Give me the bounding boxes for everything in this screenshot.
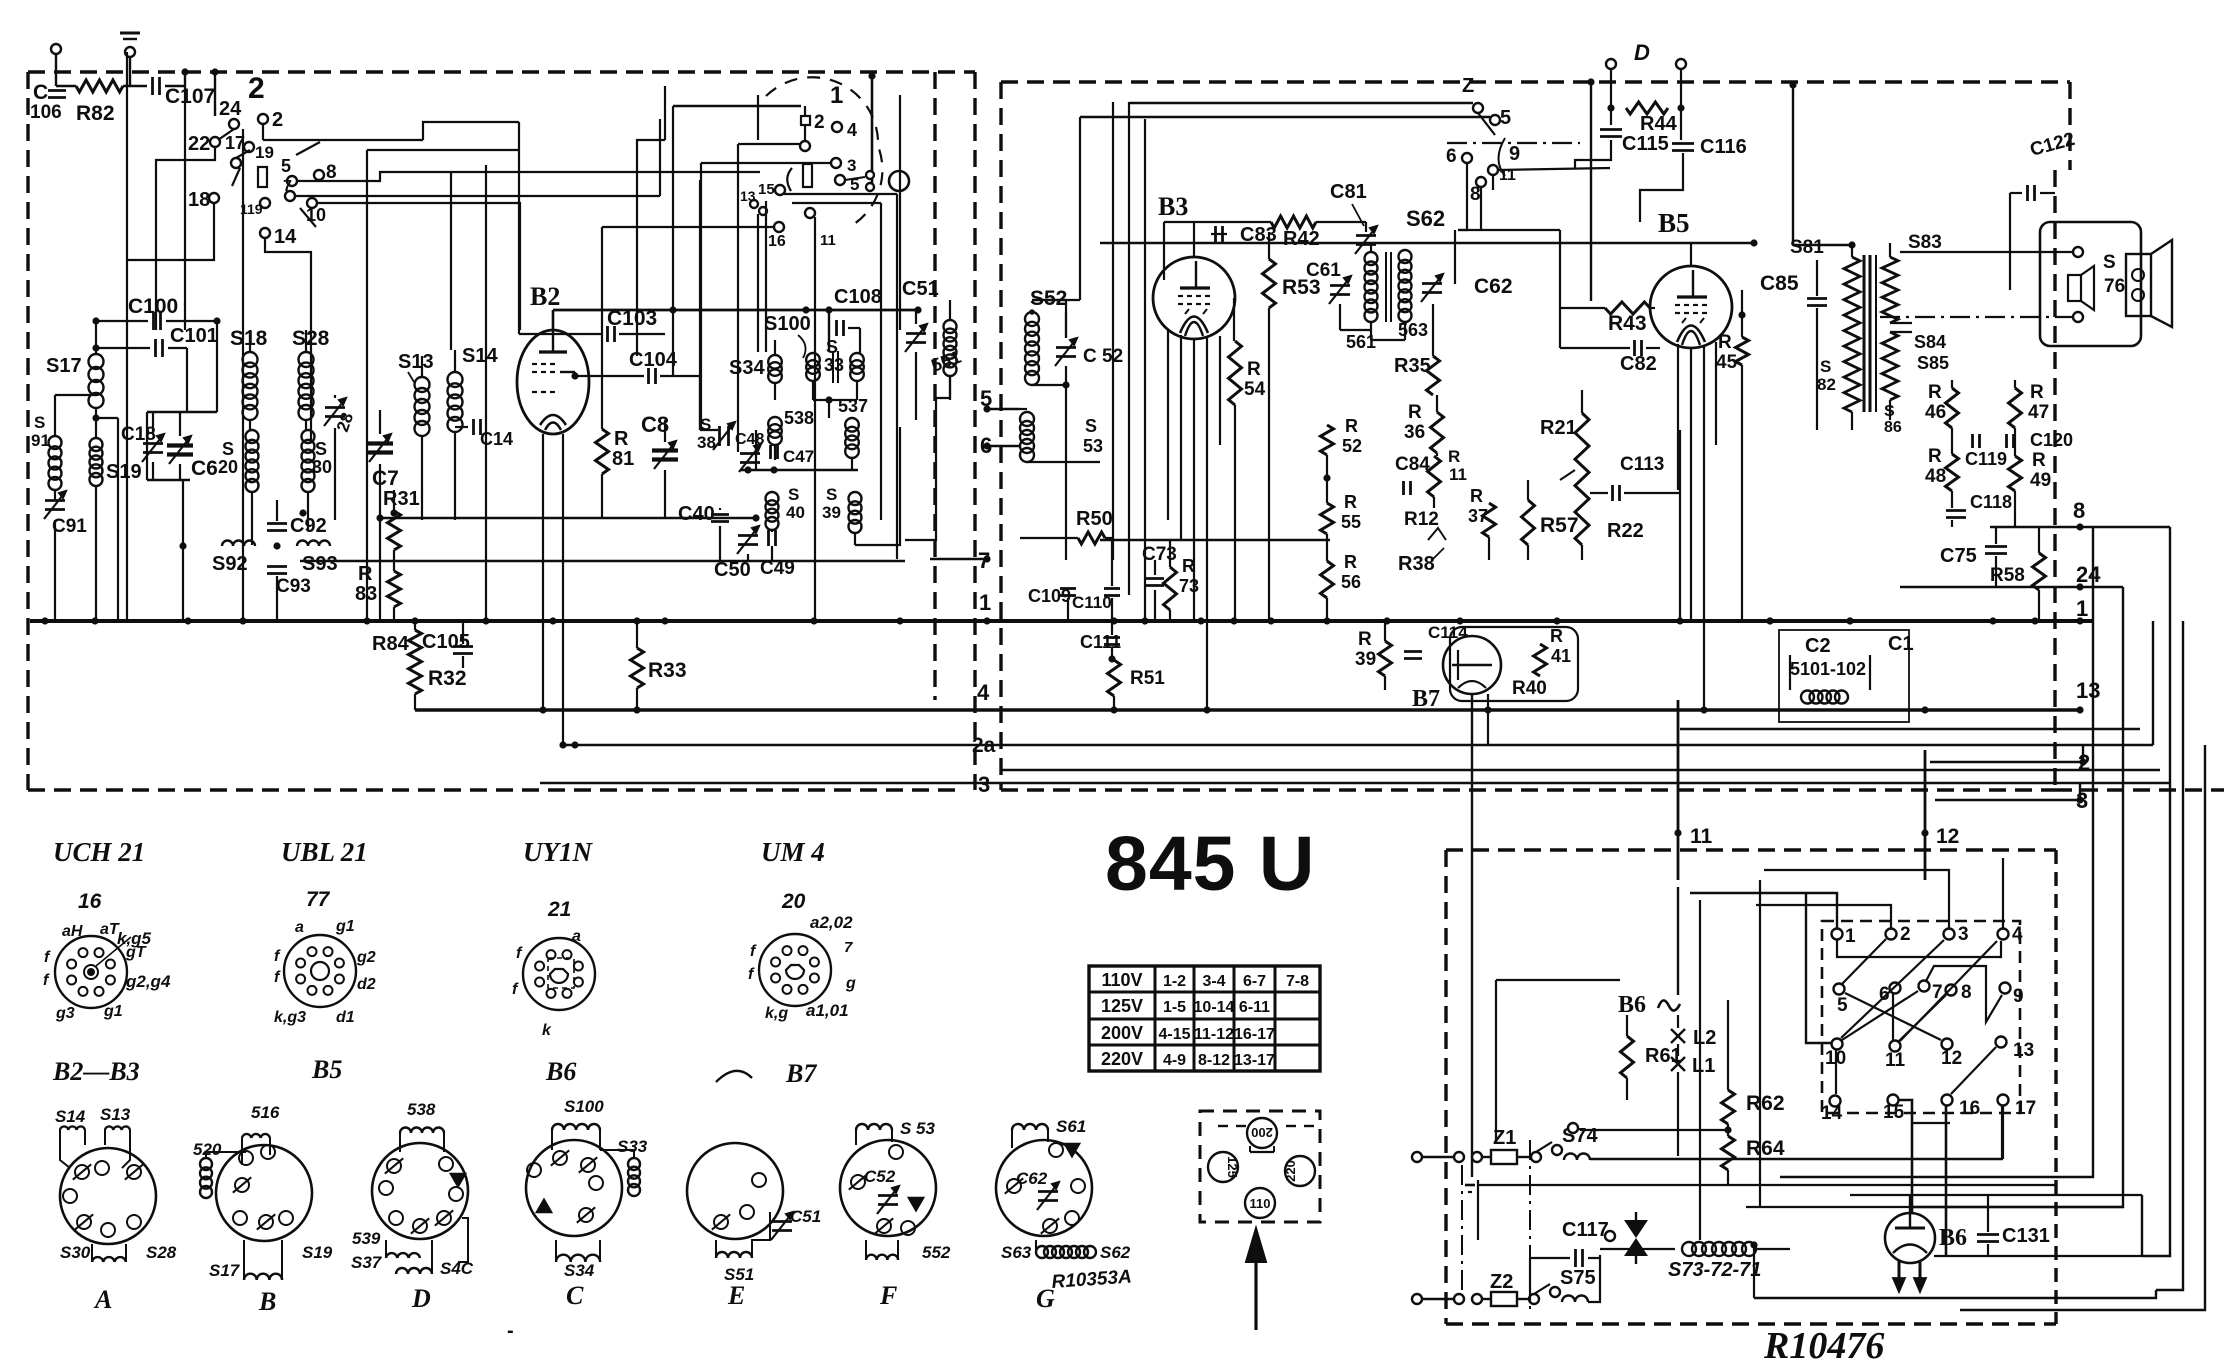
svg-text:S: S xyxy=(222,439,234,459)
svg-text:S: S xyxy=(2103,252,2116,273)
svg-text:R35: R35 xyxy=(1394,355,1431,377)
svg-text:8: 8 xyxy=(1961,982,1972,1003)
svg-text:9: 9 xyxy=(1509,143,1520,165)
svg-text:UY1N: UY1N xyxy=(523,837,593,867)
svg-text:18: 18 xyxy=(188,189,210,211)
svg-text:d1: d1 xyxy=(336,1009,355,1026)
svg-text:82: 82 xyxy=(1817,375,1836,394)
svg-text:k: k xyxy=(542,1022,552,1039)
svg-text:91: 91 xyxy=(31,431,50,450)
svg-text:10: 10 xyxy=(306,205,326,225)
svg-text:B6: B6 xyxy=(1939,1225,1967,1251)
svg-text:77: 77 xyxy=(306,888,331,911)
svg-text:S100: S100 xyxy=(764,313,811,335)
svg-text:S61: S61 xyxy=(1056,1117,1086,1136)
svg-text:g3: g3 xyxy=(55,1005,75,1022)
svg-text:E: E xyxy=(727,1281,745,1310)
svg-text:15: 15 xyxy=(1883,1102,1905,1123)
svg-text:C93: C93 xyxy=(276,576,311,597)
svg-text:R42: R42 xyxy=(1283,228,1320,250)
svg-text:S: S xyxy=(315,439,327,459)
svg-text:B6: B6 xyxy=(1618,992,1646,1018)
svg-text:R: R xyxy=(1550,626,1563,646)
svg-text:2: 2 xyxy=(814,112,825,133)
svg-text:C107: C107 xyxy=(165,85,215,108)
svg-text:7: 7 xyxy=(283,178,292,195)
svg-text:2: 2 xyxy=(272,109,283,131)
svg-text:S13: S13 xyxy=(398,351,434,373)
svg-text:R12: R12 xyxy=(1404,509,1439,530)
svg-text:a2,02: a2,02 xyxy=(810,913,853,932)
svg-text:S92: S92 xyxy=(212,553,248,575)
svg-text:516: 516 xyxy=(251,1103,280,1122)
svg-text:B6: B6 xyxy=(545,1057,576,1086)
svg-text:R: R xyxy=(358,563,373,585)
svg-text:5101-102: 5101-102 xyxy=(1790,659,1866,679)
svg-text:gT: gT xyxy=(125,944,147,961)
svg-text:16-17: 16-17 xyxy=(1234,1026,1275,1043)
svg-text:76: 76 xyxy=(2104,276,2125,297)
svg-text:C75: C75 xyxy=(1940,545,1977,567)
svg-text:538: 538 xyxy=(407,1100,436,1119)
svg-text:R51: R51 xyxy=(1130,668,1165,689)
svg-text:56: 56 xyxy=(1341,572,1361,592)
svg-text:S85: S85 xyxy=(1917,353,1949,373)
svg-text:S: S xyxy=(34,413,45,432)
svg-text:C91: C91 xyxy=(52,516,87,537)
svg-text:B2: B2 xyxy=(530,282,560,311)
svg-text:d2: d2 xyxy=(357,976,376,993)
svg-text:C51: C51 xyxy=(902,278,939,300)
svg-text:R43: R43 xyxy=(1608,312,1647,335)
svg-text:16: 16 xyxy=(1959,1098,1980,1119)
svg-text:R21: R21 xyxy=(1540,417,1577,439)
svg-text:S75: S75 xyxy=(1560,1267,1596,1289)
svg-text:45: 45 xyxy=(1716,352,1738,373)
svg-text:14: 14 xyxy=(1821,1103,1843,1124)
svg-text:C50: C50 xyxy=(714,559,751,581)
svg-text:1: 1 xyxy=(2076,596,2088,621)
svg-text:R84: R84 xyxy=(372,633,410,655)
svg-text:S34: S34 xyxy=(564,1261,595,1280)
svg-text:S: S xyxy=(1820,357,1831,376)
svg-text:C 52: C 52 xyxy=(1083,346,1123,367)
svg-text:1-5: 1-5 xyxy=(1163,999,1186,1016)
svg-text:33: 33 xyxy=(824,355,844,375)
svg-text:539: 539 xyxy=(352,1229,381,1248)
svg-text:B7: B7 xyxy=(785,1059,817,1088)
svg-text:S17: S17 xyxy=(46,355,82,377)
svg-text:12: 12 xyxy=(1936,825,1959,848)
svg-text:7: 7 xyxy=(844,939,853,956)
svg-text:4-15: 4-15 xyxy=(1158,1026,1190,1043)
svg-text:5: 5 xyxy=(1837,995,1848,1016)
svg-text:4-9: 4-9 xyxy=(1163,1052,1186,1069)
svg-text:S: S xyxy=(1085,416,1097,436)
svg-text:C81: C81 xyxy=(1330,181,1367,203)
svg-text:13: 13 xyxy=(2076,678,2100,703)
svg-text:2: 2 xyxy=(248,72,265,105)
svg-text:21: 21 xyxy=(547,898,571,921)
svg-text:3: 3 xyxy=(978,772,990,797)
svg-text:R: R xyxy=(1928,382,1942,403)
svg-text:11: 11 xyxy=(1885,1050,1906,1071)
svg-text:C: C xyxy=(566,1281,584,1310)
svg-text:86: 86 xyxy=(1884,419,1902,436)
svg-text:73: 73 xyxy=(1179,576,1199,596)
svg-text:200V: 200V xyxy=(1101,1023,1143,1043)
svg-text:S 53: S 53 xyxy=(900,1119,936,1138)
svg-text:36: 36 xyxy=(1404,422,1425,443)
svg-text:S17: S17 xyxy=(209,1261,241,1280)
svg-text:C85: C85 xyxy=(1760,272,1799,295)
svg-text:49: 49 xyxy=(2030,470,2051,491)
svg-text:R: R xyxy=(1344,552,1357,572)
svg-text:C52: C52 xyxy=(864,1167,896,1186)
svg-text:55: 55 xyxy=(1341,512,1361,532)
svg-text:k,g: k,g xyxy=(765,1005,788,1022)
svg-text:8: 8 xyxy=(326,162,337,183)
svg-text:C73: C73 xyxy=(1142,544,1177,565)
svg-text:D: D xyxy=(1634,40,1650,65)
svg-text:C117: C117 xyxy=(1562,1219,1609,1241)
svg-text:110V: 110V xyxy=(1101,970,1142,990)
svg-text:a: a xyxy=(295,919,304,936)
svg-text:C114: C114 xyxy=(1428,623,1468,642)
svg-text:16: 16 xyxy=(78,890,102,913)
svg-text:16: 16 xyxy=(768,233,786,250)
svg-text:106: 106 xyxy=(30,102,62,123)
svg-text:12: 12 xyxy=(1941,1048,1962,1069)
svg-text:-: - xyxy=(507,1320,514,1342)
svg-text:14: 14 xyxy=(274,226,297,248)
svg-text:S28: S28 xyxy=(292,327,330,350)
svg-text:L1: L1 xyxy=(1692,1055,1715,1077)
svg-text:g1: g1 xyxy=(335,918,355,935)
svg-text:2a: 2a xyxy=(972,734,996,757)
svg-text:C120: C120 xyxy=(2030,430,2073,450)
svg-text:1: 1 xyxy=(1845,926,1856,947)
svg-text:24: 24 xyxy=(219,98,242,120)
svg-text:R: R xyxy=(1247,359,1261,380)
svg-text:C82: C82 xyxy=(1620,353,1657,375)
svg-text:g2: g2 xyxy=(356,949,376,966)
svg-text:125: 125 xyxy=(1225,1156,1240,1178)
svg-text:C84: C84 xyxy=(1395,454,1430,475)
svg-text:R: R xyxy=(1928,446,1942,467)
svg-text:8: 8 xyxy=(1470,184,1481,205)
svg-text:S33: S33 xyxy=(617,1137,648,1156)
svg-text:8-12: 8-12 xyxy=(1198,1052,1230,1069)
svg-text:9: 9 xyxy=(2013,986,2024,1007)
svg-text:C2: C2 xyxy=(1805,635,1831,657)
svg-text:2: 2 xyxy=(1900,924,1911,945)
svg-text:S13: S13 xyxy=(100,1105,131,1124)
svg-text:41: 41 xyxy=(1551,646,1571,666)
svg-text:S63: S63 xyxy=(1001,1243,1032,1262)
svg-text:S100: S100 xyxy=(564,1097,604,1116)
svg-text:a: a xyxy=(572,928,581,945)
svg-text:R64: R64 xyxy=(1746,1137,1785,1160)
svg-text:R33: R33 xyxy=(648,659,687,682)
svg-text:S81: S81 xyxy=(1790,237,1824,258)
svg-text:538: 538 xyxy=(784,408,814,428)
svg-text:R22: R22 xyxy=(1607,520,1644,542)
svg-text:17: 17 xyxy=(2015,1098,2036,1119)
svg-text:C49: C49 xyxy=(760,558,795,579)
svg-text:R40: R40 xyxy=(1512,678,1547,699)
svg-text:13: 13 xyxy=(740,188,756,204)
svg-text:1-2: 1-2 xyxy=(1163,973,1186,990)
svg-text:S93: S93 xyxy=(302,553,338,575)
svg-text:52: 52 xyxy=(1342,436,1362,456)
svg-text:5: 5 xyxy=(1500,107,1511,129)
svg-text:S18: S18 xyxy=(230,327,268,350)
svg-text:R32: R32 xyxy=(428,667,467,690)
svg-text:B2—B3: B2—B3 xyxy=(52,1057,140,1086)
svg-text:S: S xyxy=(788,485,799,504)
svg-text:C40: C40 xyxy=(678,503,715,525)
svg-text:S62: S62 xyxy=(1406,206,1445,231)
svg-text:11: 11 xyxy=(1449,465,1467,484)
svg-text:S: S xyxy=(826,485,837,504)
svg-text:C116: C116 xyxy=(1700,136,1747,158)
svg-text:C118: C118 xyxy=(1970,492,2012,512)
svg-text:39: 39 xyxy=(1355,649,1376,670)
svg-text:g1: g1 xyxy=(103,1003,123,1020)
svg-text:S14: S14 xyxy=(462,345,498,367)
svg-text:a1,01: a1,01 xyxy=(806,1001,849,1020)
svg-text:R: R xyxy=(1344,492,1357,512)
svg-text:1: 1 xyxy=(979,590,991,615)
svg-text:4: 4 xyxy=(2012,924,2023,945)
svg-text:S73-72-71: S73-72-71 xyxy=(1668,1259,1761,1281)
svg-text:24: 24 xyxy=(2076,562,2101,587)
svg-text:C119: C119 xyxy=(1965,449,2007,469)
svg-text:S14: S14 xyxy=(55,1107,86,1126)
svg-text:4: 4 xyxy=(847,120,857,140)
svg-text:R: R xyxy=(1718,332,1732,353)
svg-text:S62: S62 xyxy=(1100,1243,1131,1262)
svg-text:13: 13 xyxy=(2013,1040,2034,1061)
svg-text:C101: C101 xyxy=(170,325,218,347)
svg-text:R: R xyxy=(1358,629,1372,650)
svg-text:C7: C7 xyxy=(372,467,399,490)
svg-text:S52: S52 xyxy=(1030,287,1067,310)
svg-text:S83: S83 xyxy=(1908,232,1942,253)
svg-text:C1: C1 xyxy=(1888,633,1914,655)
svg-text:1: 1 xyxy=(830,82,843,109)
svg-text:20: 20 xyxy=(218,457,238,477)
svg-text:Z2: Z2 xyxy=(1490,1271,1513,1293)
svg-text:40: 40 xyxy=(786,503,805,522)
svg-text:UBL 21: UBL 21 xyxy=(281,837,368,867)
svg-text:19: 19 xyxy=(255,143,274,162)
svg-text:6-7: 6-7 xyxy=(1243,973,1266,990)
svg-text:54: 54 xyxy=(1244,379,1266,400)
svg-text:B3: B3 xyxy=(1158,192,1188,221)
svg-text:48: 48 xyxy=(1925,466,1946,487)
svg-text:C108: C108 xyxy=(834,286,882,308)
svg-text:C6: C6 xyxy=(191,457,218,480)
svg-text:aH: aH xyxy=(62,923,83,940)
svg-text:S30: S30 xyxy=(60,1243,91,1262)
svg-text:5: 5 xyxy=(281,156,291,176)
svg-text:3: 3 xyxy=(1958,924,1969,945)
svg-text:552: 552 xyxy=(922,1243,951,1262)
svg-text:C47: C47 xyxy=(783,447,814,466)
svg-text:R38: R38 xyxy=(1398,553,1435,575)
svg-text:39: 39 xyxy=(822,503,841,522)
svg-text:15: 15 xyxy=(758,181,775,198)
svg-text:R: R xyxy=(1470,486,1483,506)
svg-text:11: 11 xyxy=(1690,825,1713,848)
svg-text:R: R xyxy=(2030,382,2044,403)
svg-text:R57: R57 xyxy=(1540,514,1579,537)
svg-text:B: B xyxy=(258,1287,276,1316)
svg-text:125V: 125V xyxy=(1101,996,1143,1016)
svg-text:46: 46 xyxy=(1925,402,1946,423)
svg-text:81: 81 xyxy=(612,448,634,470)
svg-text:13-17: 13-17 xyxy=(1234,1052,1275,1069)
svg-text:B5: B5 xyxy=(311,1055,342,1084)
svg-text:C131: C131 xyxy=(2002,1225,2050,1247)
svg-text:C113: C113 xyxy=(1620,454,1664,475)
svg-text:20: 20 xyxy=(781,890,806,913)
svg-text:UM 4: UM 4 xyxy=(761,837,825,867)
svg-text:B5: B5 xyxy=(1658,208,1690,238)
svg-text:C115: C115 xyxy=(1622,133,1669,155)
svg-text:R82: R82 xyxy=(76,102,115,125)
svg-text:C: C xyxy=(33,81,48,104)
svg-text:110: 110 xyxy=(1250,1196,1271,1211)
svg-text:11: 11 xyxy=(820,232,836,249)
svg-text:R53: R53 xyxy=(1282,276,1321,299)
svg-text:S84: S84 xyxy=(1914,332,1946,352)
svg-text:C111: C111 xyxy=(1080,632,1121,652)
svg-text:C92: C92 xyxy=(290,515,327,537)
svg-text:200: 200 xyxy=(1251,1125,1273,1140)
svg-text:C18: C18 xyxy=(121,424,156,445)
svg-text:8: 8 xyxy=(2073,498,2085,523)
svg-text:k,g3: k,g3 xyxy=(274,1009,306,1026)
svg-text:11-12: 11-12 xyxy=(1194,1026,1234,1043)
svg-text:A: A xyxy=(93,1285,112,1314)
svg-text:R: R xyxy=(1408,402,1422,423)
svg-text:845 U: 845 U xyxy=(1105,821,1315,907)
svg-text:R: R xyxy=(1448,447,1460,466)
svg-text:S19: S19 xyxy=(302,1243,333,1262)
svg-text:g2,g4: g2,g4 xyxy=(125,972,171,991)
svg-text:UCH 21: UCH 21 xyxy=(53,837,145,867)
svg-text:520: 520 xyxy=(193,1140,222,1159)
svg-text:R: R xyxy=(2032,450,2046,471)
svg-text:R31: R31 xyxy=(383,488,420,510)
svg-text:6-11: 6-11 xyxy=(1239,999,1270,1016)
svg-text:R: R xyxy=(1345,416,1358,436)
svg-text:3-4: 3-4 xyxy=(1202,973,1225,990)
svg-text:B7: B7 xyxy=(1412,686,1440,712)
svg-text:Z: Z xyxy=(1462,75,1474,97)
svg-text:7-8: 7-8 xyxy=(1286,973,1309,990)
svg-text:220V: 220V xyxy=(1101,1049,1143,1069)
svg-text:R10476: R10476 xyxy=(1763,1325,1884,1364)
svg-text:22: 22 xyxy=(188,133,210,155)
svg-text:10-14: 10-14 xyxy=(1194,999,1235,1016)
svg-text:G: G xyxy=(1036,1284,1055,1313)
svg-text:563: 563 xyxy=(1398,320,1428,340)
svg-text:4: 4 xyxy=(977,680,990,705)
svg-text:220: 220 xyxy=(1283,1160,1298,1182)
svg-text:47: 47 xyxy=(2028,402,2049,423)
svg-text:6: 6 xyxy=(1446,146,1457,167)
svg-text:S28: S28 xyxy=(146,1243,177,1262)
svg-text:g: g xyxy=(845,975,856,992)
svg-text:R44: R44 xyxy=(1640,113,1678,135)
svg-text:C51: C51 xyxy=(790,1207,821,1226)
svg-text:S34: S34 xyxy=(729,357,765,379)
svg-text:S19: S19 xyxy=(106,461,142,483)
svg-text:C62: C62 xyxy=(1474,275,1513,298)
svg-text:F: F xyxy=(879,1281,897,1310)
svg-text:S37: S37 xyxy=(351,1253,383,1272)
svg-text:D: D xyxy=(411,1284,431,1313)
svg-text:53: 53 xyxy=(1083,436,1103,456)
svg-text:3: 3 xyxy=(847,156,856,175)
svg-text:R50: R50 xyxy=(1076,508,1113,530)
svg-text:R: R xyxy=(614,428,629,450)
svg-text:R62: R62 xyxy=(1746,1092,1785,1115)
svg-text:L2: L2 xyxy=(1693,1027,1716,1049)
